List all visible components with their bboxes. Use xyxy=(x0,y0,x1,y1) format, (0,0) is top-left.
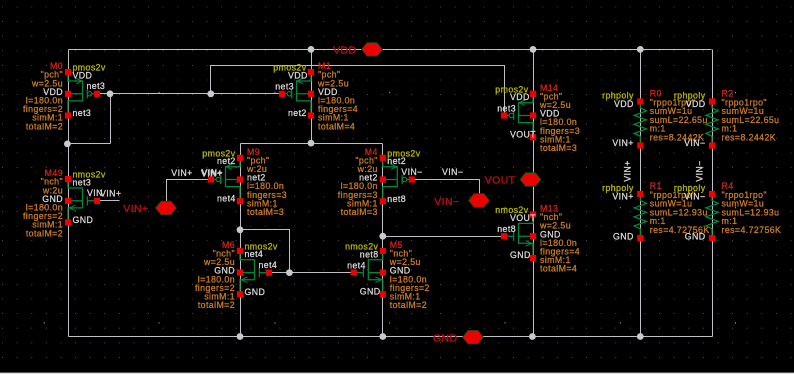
resistor R2 rphpoly symbol xyxy=(706,105,718,143)
wire VIN- from M4 gate to pin xyxy=(412,180,480,197)
wire net4 branch xyxy=(241,230,290,273)
svg-text:totalM=2: totalM=2 xyxy=(26,121,63,131)
svg-text:VIN−: VIN− xyxy=(442,167,463,177)
junction VDD/M1 xyxy=(308,46,315,53)
svg-text:net2: net2 xyxy=(288,108,307,118)
pin VOUT octagon xyxy=(520,173,541,187)
transistor M14 pmos2v symbol xyxy=(504,97,533,134)
svg-text:VOUT: VOUT xyxy=(510,213,536,223)
svg-text:VDD: VDD xyxy=(614,99,634,109)
svg-text:VIN+: VIN+ xyxy=(123,203,148,215)
wire VDD top rail xyxy=(69,49,712,51)
resistor R0 rphpoly symbol xyxy=(634,105,646,143)
junction VDD/M14 xyxy=(530,46,537,53)
wire left column M0/M49 xyxy=(68,50,70,337)
wire R0/R1 column xyxy=(640,50,642,337)
junction GND/M5 xyxy=(379,333,386,340)
svg-text:net2: net2 xyxy=(387,156,406,166)
junction net3 at M0 gate xyxy=(107,90,114,97)
svg-text:net8: net8 xyxy=(360,249,379,259)
junction net4 gate row xyxy=(286,269,293,276)
transistor M13 nmos2v symbol xyxy=(504,218,533,255)
svg-text:net3: net3 xyxy=(87,81,106,91)
svg-text:net3: net3 xyxy=(497,103,516,113)
svg-text:net4: net4 xyxy=(245,249,264,259)
junction net2/M1 xyxy=(308,140,315,147)
wire net2 rail xyxy=(241,143,383,145)
junction net3 branch xyxy=(207,90,214,97)
junction GND/R1 xyxy=(637,333,644,340)
wire net3 riser xyxy=(110,94,112,144)
resistor R1 rphpoly symbol xyxy=(634,197,646,235)
svg-text:VOUT: VOUT xyxy=(485,175,516,187)
pin VDD octagon xyxy=(362,43,383,57)
wire M1 column xyxy=(311,50,313,144)
svg-text:totalM=3: totalM=3 xyxy=(247,207,284,217)
svg-text:net8: net8 xyxy=(387,194,406,204)
wire net3 lower link xyxy=(68,143,111,145)
junction GND/M13 xyxy=(529,333,536,340)
transistor M5 nmos2v symbol xyxy=(354,254,383,291)
svg-text:VOUT: VOUT xyxy=(510,130,536,140)
pin GND octagon xyxy=(463,330,484,344)
svg-text:VDD: VDD xyxy=(288,71,308,81)
wire net8 to M13 gate xyxy=(383,236,504,238)
svg-text:VDD: VDD xyxy=(73,70,93,80)
svg-text:GND: GND xyxy=(360,287,381,297)
svg-text:GND: GND xyxy=(73,215,94,225)
svg-text:VIN−: VIN− xyxy=(434,196,459,208)
wire net4 gate row M6-M5 xyxy=(267,272,354,274)
transistor M49 nmos2v symbol xyxy=(68,182,97,219)
svg-text:totalM=2: totalM=2 xyxy=(390,300,427,310)
svg-text:VIN+: VIN+ xyxy=(100,188,121,198)
wire VIN+ from pin to M9 gate xyxy=(167,180,211,202)
svg-text:net3: net3 xyxy=(73,177,92,187)
junction net8 xyxy=(379,233,386,240)
junction net4 xyxy=(237,226,244,233)
wire M14/M13 column VOUT xyxy=(533,50,535,337)
svg-text:VIN−: VIN− xyxy=(695,160,705,181)
svg-text:net3: net3 xyxy=(275,82,294,92)
svg-text:res=4.72756K: res=4.72756K xyxy=(722,225,782,235)
svg-text:VIN−: VIN− xyxy=(401,167,422,177)
wire R2/R4 column xyxy=(712,50,714,337)
svg-text:GND: GND xyxy=(433,332,458,344)
svg-text:res=8.2442K: res=8.2442K xyxy=(722,133,777,143)
svg-text:net4: net4 xyxy=(259,260,278,270)
resistor R4 rphpoly symbol xyxy=(706,197,718,235)
svg-text:net4: net4 xyxy=(347,260,366,270)
svg-text:GND: GND xyxy=(613,232,634,242)
svg-text:VIN+: VIN+ xyxy=(612,138,633,148)
wire net3 gate row xyxy=(97,93,283,95)
junction net3 left column xyxy=(64,141,71,148)
junction GND/M6 xyxy=(237,333,244,340)
svg-text:GND: GND xyxy=(245,287,266,297)
svg-text:net8: net8 xyxy=(497,224,516,234)
svg-text:net2: net2 xyxy=(217,156,236,166)
svg-text:VIN+: VIN+ xyxy=(623,160,633,181)
wire M4/M5 column xyxy=(382,144,384,337)
svg-text:VIN+: VIN+ xyxy=(612,192,633,202)
wire net3 to M14 gate xyxy=(211,66,505,116)
transistor M1 pmos2v symbol xyxy=(282,75,311,112)
svg-text:totalM=4: totalM=4 xyxy=(540,264,577,274)
svg-text:totalM=4: totalM=4 xyxy=(318,121,355,131)
window bottom edge xyxy=(0,373,794,374)
svg-text:VIN+: VIN+ xyxy=(201,168,222,178)
svg-text:totalM=3: totalM=3 xyxy=(540,143,577,153)
svg-text:VIN−: VIN− xyxy=(684,192,705,202)
pin VIN+ octagon xyxy=(156,201,177,215)
svg-text:net4: net4 xyxy=(217,194,236,204)
svg-text:net3: net3 xyxy=(73,108,92,118)
svg-text:VDD: VDD xyxy=(686,99,706,109)
transistor M6 nmos2v symbol xyxy=(240,254,269,291)
pin VIN- octagon xyxy=(469,194,490,208)
svg-text:GND: GND xyxy=(510,250,531,260)
svg-text:VDD: VDD xyxy=(333,45,356,57)
wire VIN+ stub at M49 gate xyxy=(96,200,120,202)
junction VDD/R0 xyxy=(637,46,644,53)
svg-text:VDD: VDD xyxy=(510,92,530,102)
wire GND bottom rail xyxy=(69,336,713,338)
svg-text:VIN−: VIN− xyxy=(684,138,705,148)
transistor M0 pmos2v symbol xyxy=(68,75,97,112)
svg-text:totalM=3: totalM=3 xyxy=(341,207,378,217)
grid major dots xyxy=(44,93,736,323)
transistor M9 pmos2v symbol xyxy=(211,161,240,198)
svg-text:VIN+: VIN+ xyxy=(171,168,192,178)
svg-text:totalM=2: totalM=2 xyxy=(26,228,63,238)
svg-text:GND: GND xyxy=(685,232,706,242)
transistor M4 pmos2v symbol xyxy=(383,161,412,198)
svg-text:totalM=2: totalM=2 xyxy=(198,300,235,310)
wire M9/M6 column xyxy=(240,144,242,337)
